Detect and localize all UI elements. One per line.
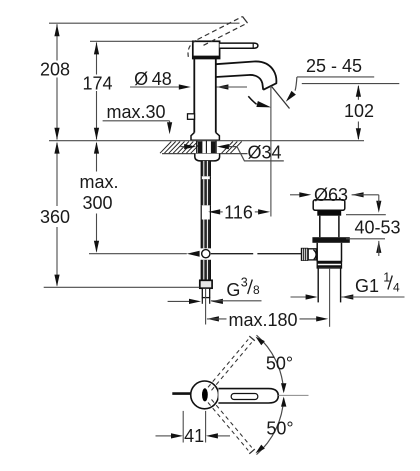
svg-text:Ø34: Ø34 [247,143,281,163]
svg-text:Ø63: Ø63 [314,185,348,205]
svg-text:max.30: max.30 [106,102,165,122]
svg-text:50°: 50° [266,354,293,374]
svg-text:102: 102 [344,101,374,121]
svg-text:300: 300 [82,193,112,213]
svg-text:116: 116 [224,202,253,222]
svg-text:1: 1 [383,271,390,285]
svg-text:25 - 45: 25 - 45 [306,56,362,76]
svg-text:50°: 50° [266,419,293,439]
svg-text:208: 208 [40,60,70,80]
svg-text:Ø 48: Ø 48 [134,69,172,89]
svg-text:G: G [226,280,240,300]
svg-text:3: 3 [241,276,248,290]
svg-text:max.: max. [79,172,118,192]
svg-text:4: 4 [393,281,400,295]
svg-text:41: 41 [184,426,204,446]
svg-text:40-53: 40-53 [354,218,400,238]
svg-text:8: 8 [253,283,260,297]
svg-text:360: 360 [40,207,70,227]
svg-text:174: 174 [82,74,112,94]
svg-text:max.180: max.180 [228,310,297,330]
svg-text:G1: G1 [355,276,379,296]
